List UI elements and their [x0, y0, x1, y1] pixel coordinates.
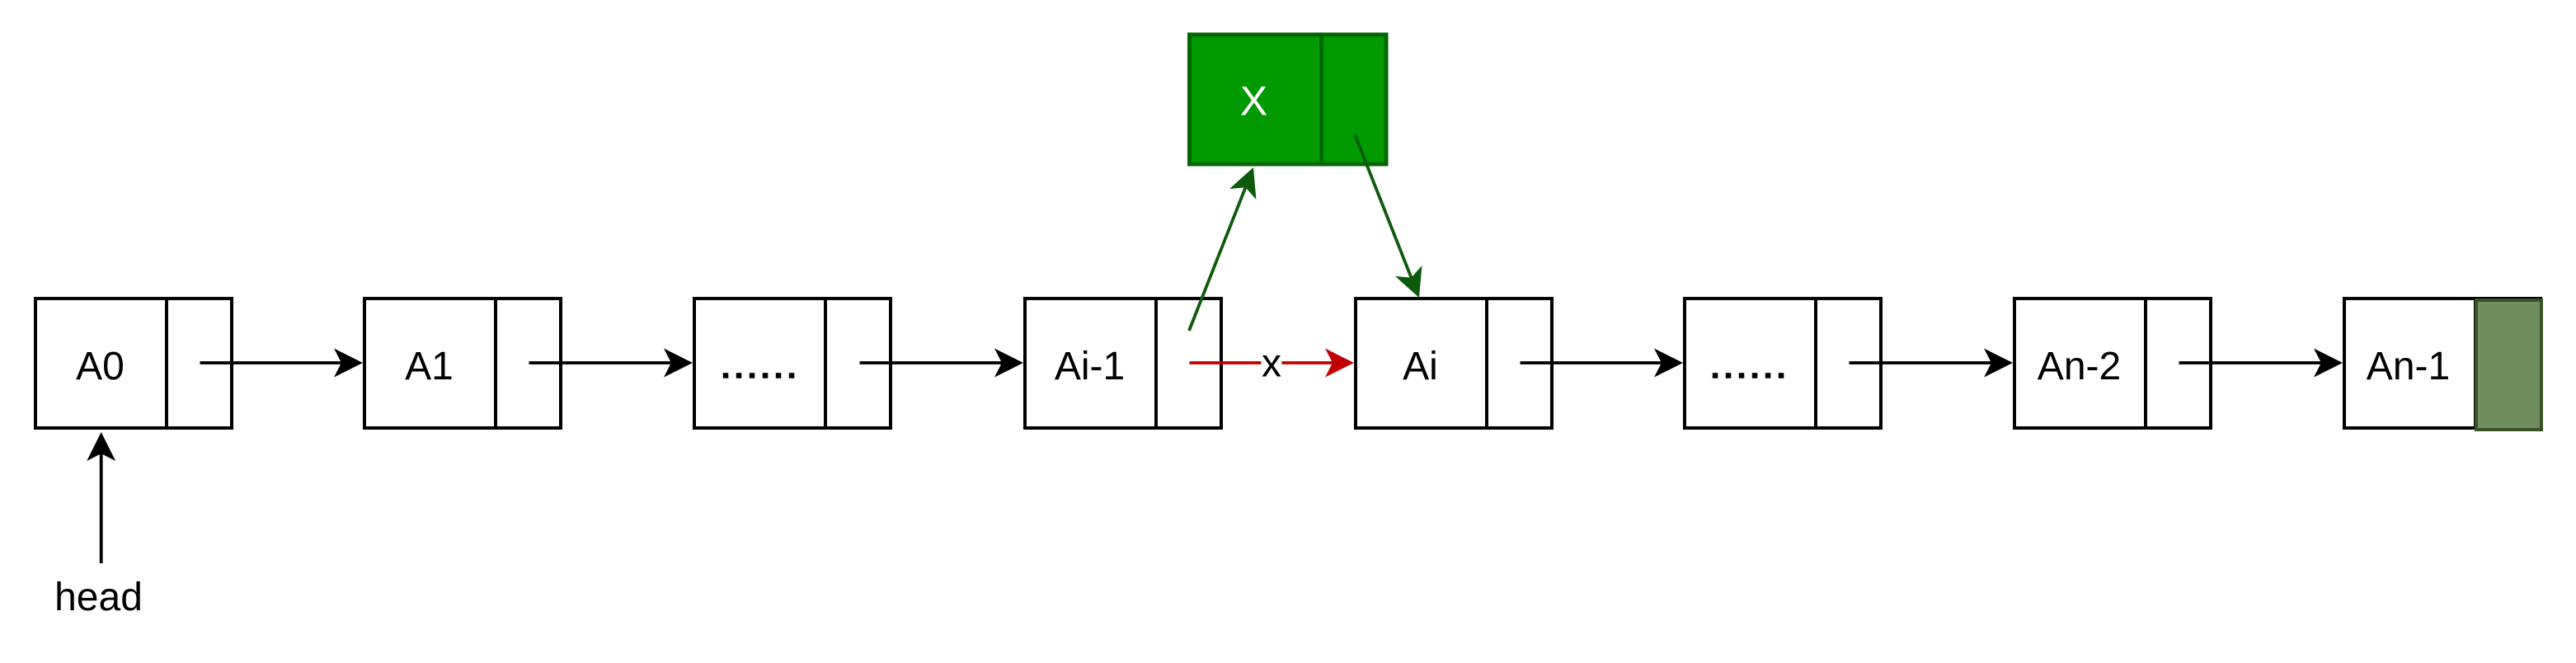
svg-text:X: X — [1240, 78, 1267, 125]
label x on red wire — [1262, 341, 1282, 385]
wire An-2 to An-1 — [2179, 349, 2343, 378]
svg-text:A0: A0 — [76, 345, 125, 388]
svg-text:Ai: Ai — [1403, 345, 1438, 388]
node ellipsis2 dots — [1713, 373, 1784, 379]
node Ai box — [1356, 297, 1552, 430]
svg-text:An-1: An-1 — [2367, 345, 2450, 388]
wire ellipsis1 to Ai-1 — [860, 349, 1024, 378]
wire A1 to ellipsis1 — [529, 349, 693, 378]
svg-text:Ai-1: Ai-1 — [1055, 345, 1125, 388]
head pointer arrow — [87, 432, 115, 563]
wire Ai to ellipsis2 — [1521, 349, 1684, 378]
node ellipsis2 box — [1685, 297, 1881, 430]
node An-1 null pointer (filled sage) — [2476, 300, 2541, 430]
red wire Ai-1 to Ai (old link being cut) — [1190, 349, 1355, 378]
green wire Ai-1 pointer to X — [1189, 167, 1256, 331]
svg-text:x: x — [1262, 341, 1281, 385]
wire ellipsis2 to An-2 — [1850, 349, 2014, 378]
wire A0 to A1 — [200, 349, 364, 378]
svg-text:A1: A1 — [405, 345, 454, 388]
new node X box (green) — [1190, 33, 1387, 166]
node ellipsis1 box — [694, 297, 891, 430]
node An-2 box — [2014, 297, 2211, 430]
svg-text:head: head — [54, 576, 143, 619]
svg-text:An-2: An-2 — [2038, 345, 2121, 388]
node ellipsis1 dots — [723, 373, 795, 379]
node A0 box — [35, 297, 232, 430]
green wire X pointer to Ai — [1355, 134, 1422, 298]
node An-1 box — [2344, 297, 2541, 430]
node Ai-1 box — [1025, 297, 1221, 430]
node A1 box — [364, 297, 561, 430]
